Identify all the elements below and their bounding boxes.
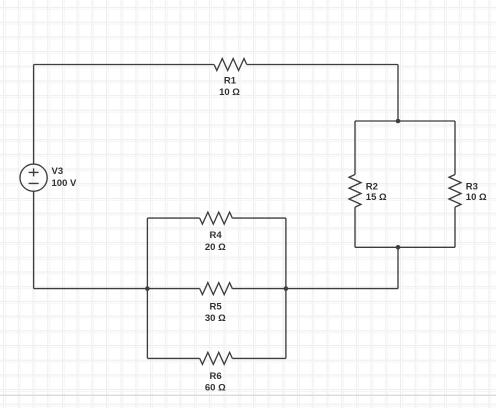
svg-text:15 Ω: 15 Ω xyxy=(366,192,387,203)
wire R6 left lead xyxy=(147,357,199,359)
svg-text:60 Ω: 60 Ω xyxy=(205,382,226,393)
svg-text:R2: R2 xyxy=(366,181,378,192)
node junction bottom xyxy=(396,245,401,250)
wire box2 top xyxy=(355,120,455,122)
wire R5 to node xyxy=(232,288,286,290)
voltage source V3 xyxy=(20,164,47,191)
wire left vertical upper xyxy=(33,65,35,165)
wire R3 top lead xyxy=(454,121,456,175)
wire right vertical upper xyxy=(397,65,399,122)
wire right vertical lower xyxy=(397,247,399,288)
wire R3 bottom lead xyxy=(454,207,456,247)
resistor R4 xyxy=(200,212,233,224)
svg-text:R3: R3 xyxy=(466,181,478,192)
wire bottom-left xyxy=(34,288,148,290)
resistor R1 xyxy=(214,59,247,71)
node junction top xyxy=(396,119,401,124)
svg-text:10 Ω: 10 Ω xyxy=(219,87,240,98)
resistor R5 xyxy=(200,283,233,295)
wire R4 left lead xyxy=(147,217,199,219)
resistor R2 xyxy=(349,175,361,208)
wire R2 top lead xyxy=(354,121,356,175)
node junction left xyxy=(145,286,150,291)
wire R6 right lead xyxy=(232,357,286,359)
svg-text:V3: V3 xyxy=(52,166,64,177)
wire left vertical lower xyxy=(33,191,35,288)
svg-text:R5: R5 xyxy=(210,302,223,313)
wire box2 bottom xyxy=(355,246,455,248)
svg-text:R1: R1 xyxy=(224,75,237,86)
svg-text:30 Ω: 30 Ω xyxy=(205,313,226,324)
wire R1 to top-right corner xyxy=(247,64,398,66)
wire box1 left xyxy=(146,218,148,358)
wire box1 right xyxy=(285,218,287,358)
svg-text:R6: R6 xyxy=(210,371,222,382)
svg-text:10 Ω: 10 Ω xyxy=(466,192,487,203)
wire R4 right lead xyxy=(232,217,286,219)
svg-text:20 Ω: 20 Ω xyxy=(205,242,226,253)
wire R2 bottom lead xyxy=(354,207,356,247)
resistor R3 xyxy=(449,175,461,208)
node junction right xyxy=(284,286,289,291)
wire node to R5 xyxy=(147,288,199,290)
wire top-left to R1 xyxy=(34,64,215,66)
svg-text:R4: R4 xyxy=(210,230,223,241)
svg-text:100 V: 100 V xyxy=(52,178,77,189)
wire bottom-right xyxy=(286,288,398,290)
resistor R6 xyxy=(200,352,233,364)
